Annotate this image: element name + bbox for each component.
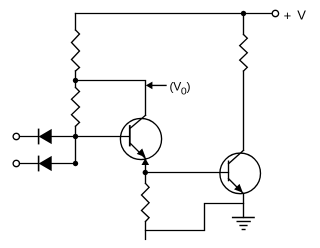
wire terminal 1 to D1 xyxy=(20,136,39,138)
junction dot node B xyxy=(143,170,148,175)
wire Q1 base feed xyxy=(76,136,130,138)
wire Q2 emitter to ground xyxy=(243,193,245,217)
wire top supply rail xyxy=(76,13,273,15)
junction dot diode row 1 xyxy=(73,134,78,139)
junction dot top rail xyxy=(241,11,246,16)
wire terminal 2 to D2 xyxy=(20,163,39,165)
current arrow on Q1 emitter xyxy=(142,159,149,165)
label (V0) arrow xyxy=(146,82,152,89)
wire node B to Q2 base xyxy=(145,172,228,174)
transistor Q2 xyxy=(220,150,261,193)
resistor R4 xyxy=(145,173,147,184)
svg-text:V: V xyxy=(297,7,306,22)
diode D2 xyxy=(38,156,40,170)
resistor R3 xyxy=(240,35,248,72)
wire left rail between diode rows xyxy=(75,137,77,164)
wire Q1 emitter down xyxy=(145,159,147,173)
wire R1 to node A xyxy=(75,71,77,81)
junction dot node A xyxy=(73,78,78,83)
wire Q2 collector up xyxy=(243,71,245,150)
wire node A to Q1 collector xyxy=(76,81,146,116)
wire R3 to top rail xyxy=(243,14,245,35)
svg-text:+: + xyxy=(284,8,292,23)
resistor R2 xyxy=(75,81,77,88)
ground xyxy=(233,218,255,230)
input terminal 1 xyxy=(13,133,19,139)
transistor Q1 xyxy=(120,115,161,159)
diode D1 xyxy=(38,129,40,143)
junction dot diode row 2 xyxy=(73,161,78,166)
output terminal +V xyxy=(272,10,278,16)
wire R4 bottom stub xyxy=(145,222,147,240)
input terminal 2 xyxy=(13,160,19,166)
wire left rail top lead xyxy=(75,14,77,31)
wire ground tap to R4 bottom xyxy=(146,204,244,231)
resistor R1 xyxy=(72,30,80,71)
